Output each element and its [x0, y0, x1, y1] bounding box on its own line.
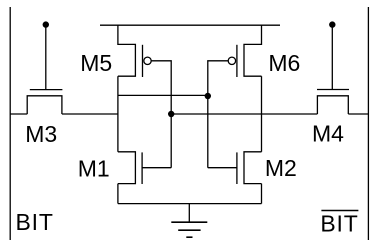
transistor M6 gate bubble: [228, 57, 235, 64]
node word-line contact right (junction dot): [329, 21, 335, 27]
transistor M5 gate bar: [142, 45, 144, 77]
wire BIT bit-line (left vertical): [9, 7, 11, 240]
svg-text:M5: M5: [80, 50, 112, 76]
wire M1 source to ground rail: [117, 184, 119, 204]
wire M2 source to ground rail: [261, 184, 263, 204]
transistor M4 gate bar: [317, 89, 349, 91]
overline of BITbar: [321, 210, 358, 212]
node A junction dot: [205, 93, 211, 99]
wire M6 gate to node A (right gate column): [208, 61, 228, 168]
transistor M3 (access NMOS) channel with source/drain drops: [27, 96, 62, 114]
svg-text:M3: M3: [25, 121, 57, 147]
transistor M1 gate bar: [141, 152, 143, 184]
transistor M1 (NMOS) drain/channel/source C-shape: [118, 152, 135, 184]
transistor M5 (PMOS) source/channel/drain C-shape: [118, 25, 135, 76]
node B junction dot: [168, 111, 174, 117]
svg-text:M6: M6: [268, 50, 300, 76]
wire BIT to M3 source: [10, 113, 27, 115]
wire M1 gate lead: [142, 167, 171, 169]
ground bar 2: [178, 229, 200, 231]
svg-text:BIT: BIT: [16, 209, 54, 235]
wire node A horizontal to right inverter gates: [118, 94, 208, 96]
wire VDD rail: [100, 24, 280, 26]
ground stem: [188, 204, 190, 223]
wire node A (left inverter output column): [117, 76, 119, 152]
transistor M2 (NMOS) drain/channel/source C-shape: [244, 152, 262, 184]
wire BITbar bit-line (right vertical): [367, 7, 369, 240]
wire M4 source to BITbar: [348, 113, 368, 115]
svg-text:M2: M2: [265, 155, 297, 181]
transistor M5 gate bubble: [144, 57, 151, 64]
transistor M6 gate bar: [236, 45, 238, 77]
wire M4 gate lead (vertical stub): [331, 25, 333, 90]
wire M3 drain to node A column: [62, 113, 118, 115]
svg-text:M4: M4: [312, 121, 344, 147]
ground bar 1: [171, 221, 207, 223]
ground bar 3: [186, 236, 192, 238]
wire node B horizontal (to M4 drain): [171, 113, 317, 115]
svg-text:BIT: BIT: [320, 210, 358, 236]
wire node B (right inverter output column): [261, 76, 263, 152]
svg-text:M1: M1: [78, 155, 110, 181]
wire M5 gate to node B (left gate column): [152, 61, 172, 168]
wire ground rail (common NMOS sources): [118, 203, 262, 205]
wire M2 gate lead: [208, 167, 237, 169]
wire M3 gate lead (vertical stub): [45, 25, 47, 90]
transistor M4 (access NMOS) channel with source/drain drops: [317, 96, 348, 114]
transistor M3 gate bar: [30, 89, 63, 91]
transistor M6 (PMOS) source/channel/drain C-shape: [244, 25, 262, 76]
transistor M2 gate bar: [236, 152, 238, 184]
node word-line contact left (junction dot): [43, 21, 49, 27]
